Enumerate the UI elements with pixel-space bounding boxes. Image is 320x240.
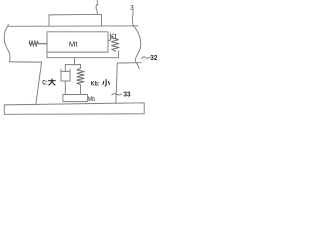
branch bar over damper and spring Kb [65,64,80,66]
box 1 (top engine/unit box) [49,14,102,26]
svg-text:Kt: Kt [110,34,117,41]
kanji 小 (small) after Kb: [103,80,109,86]
mass Mb box [63,95,88,102]
svg-text:C:: C: [42,80,47,87]
kanji 大 (large) after C: [49,79,56,85]
svg-text:33: 33 [124,92,131,99]
plate 3 bottom edge, left segment [10,61,42,63]
spring Kb bottom lead [80,85,82,95]
svg-text:32: 32 [150,55,157,62]
svg-text:Kb:: Kb: [91,81,100,88]
left break (torn edge) curve of plate 3 [4,25,10,62]
spring Kt lead from Mt [108,39,110,41]
damper C cylinder [61,69,70,81]
leader tilde for 32 [141,57,150,59]
damper C piston plate [62,70,69,72]
stub from tray to branch [74,58,76,65]
svg-text:Mt: Mt [69,39,78,48]
spring Kb (vertical zigzag) [77,68,84,85]
right break (torn edge) curve of plate 3 [135,27,141,68]
damper C bottom rod [64,81,66,95]
mass Mt box [47,32,108,52]
hanger tray under Mt [47,51,119,58]
damper C piston rod [64,65,66,72]
svg-text:Mb: Mb [88,96,95,103]
leader line to label 1 [96,5,97,14]
right support wall 33 [116,63,117,103]
left support wall (slanted) [36,62,42,104]
spring Kb top lead [80,65,82,69]
spring Kt (vertical zigzag) [110,38,119,51]
svg-text:3: 3 [130,3,133,12]
leader tilde for 33 [112,94,122,95]
plate 3 bottom edge, right segment [117,62,141,64]
base plate [4,103,144,115]
left spring (horizontal) [29,41,47,47]
leader line to label 3 [132,10,133,27]
svg-text:1: 1 [96,0,99,6]
plate 3 top surface line [8,25,138,27]
